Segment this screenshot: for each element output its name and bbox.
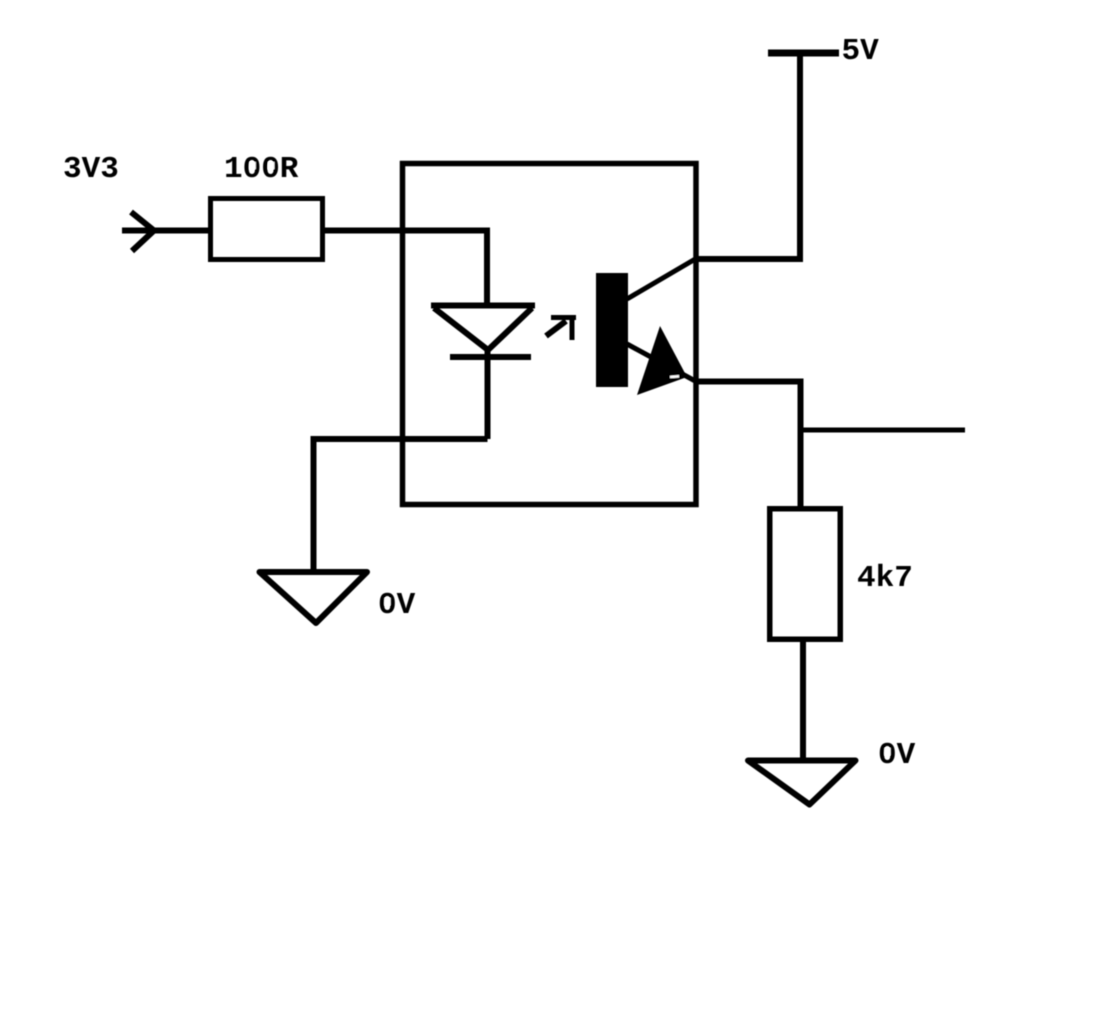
power rail 5V bar <box>768 50 839 57</box>
LED D1 triangle left side <box>434 308 488 350</box>
wire output branch <box>801 428 965 433</box>
resistor R1 100R body <box>211 199 323 260</box>
optocoupler U1 package outline <box>403 164 697 505</box>
phototransistor Q1 emitter arrowhead <box>637 326 687 395</box>
light arrow (optical coupling) <box>546 318 576 341</box>
ground symbol right <box>748 761 856 805</box>
net 0V label right <box>878 738 916 773</box>
svg-text:3V3: 3V3 <box>63 152 119 187</box>
wire collector to 5V rail <box>694 53 800 259</box>
wire LED cathode down <box>485 348 491 439</box>
svg-text:0V: 0V <box>378 588 416 623</box>
wire emitter to output node <box>694 382 801 509</box>
phototransistor Q1 emitter lead <box>627 344 697 382</box>
wire R2 to ground <box>800 640 806 760</box>
ground symbol left <box>260 572 368 623</box>
wire input to R1 <box>122 228 212 234</box>
svg-text:0V: 0V <box>878 738 916 773</box>
LED D1 triangle right side <box>488 308 532 350</box>
svg-text:4k7: 4k7 <box>857 561 913 596</box>
svg-text:5V: 5V <box>842 34 880 69</box>
wire R1 to LED anode <box>322 231 487 307</box>
net 0V label left <box>378 588 416 623</box>
svg-text:100R: 100R <box>224 152 299 187</box>
LED D1 cathode bar <box>450 354 531 360</box>
LED D1 anode bar <box>431 303 535 309</box>
phototransistor Q1 base bar <box>596 273 628 387</box>
phototransistor Q1 collector lead <box>627 258 697 299</box>
input arrow (signal source chevron) <box>131 212 154 251</box>
wire LED cathode to ground <box>314 439 488 571</box>
resistor R1 value 100R label <box>224 152 299 187</box>
resistor R2 4k7 body <box>770 509 841 640</box>
